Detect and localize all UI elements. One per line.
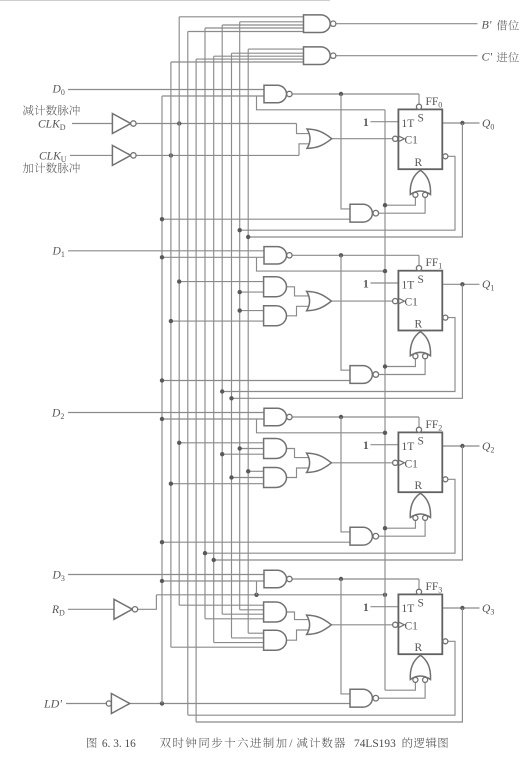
FF0 label S xyxy=(418,113,424,125)
NAND gate load-S cell0 xyxy=(264,85,292,102)
svg-text:C1: C1 xyxy=(405,458,419,470)
NAND gate G_C (carry) xyxy=(304,47,336,65)
svg-text:LD': LD' xyxy=(43,696,62,710)
wire up-AND input 2 cell2 xyxy=(240,448,264,450)
wire C' output xyxy=(336,55,478,57)
FF2 label R xyxy=(415,480,423,492)
svg-text:R: R xyxy=(415,480,423,492)
label constant 1 cell3 xyxy=(363,602,369,614)
wire bus LD vertical xyxy=(161,96,163,704)
node reset branch cell2 xyxy=(383,526,387,530)
label constant 1 cell0 xyxy=(363,117,369,129)
svg-text:1: 1 xyxy=(363,440,369,452)
OR gate clock cell0 xyxy=(307,129,332,148)
wire LD branch cell2 NAND input2 xyxy=(162,418,264,420)
wire C1 line cell0 xyxy=(332,138,393,140)
wire down-AND out step cell3 xyxy=(286,630,311,640)
wire NAND2 out cell0 xyxy=(379,198,425,214)
wire 1T constant cell0 xyxy=(371,121,399,123)
wire C1 line cell3 xyxy=(332,624,393,626)
wire LD to NAND2 cell0 xyxy=(162,218,350,220)
wire NAND1 output cell2 xyxy=(292,416,419,418)
wire NAND1 output cell3 xyxy=(292,578,419,580)
FF3 label 1T xyxy=(402,603,415,615)
label constant 1 cell2 xyxy=(363,440,369,452)
inverter LD' xyxy=(106,694,129,714)
FF3 S bubble xyxy=(416,589,421,594)
svg-text:1T: 1T xyxy=(402,279,415,291)
wire NAND1-to-NAND2 cell3 xyxy=(341,579,350,694)
wire CLK_D out xyxy=(136,123,296,125)
FF2 label 1T xyxy=(402,441,415,453)
wire reset branch cell0 xyxy=(385,198,415,206)
wire up-AND out step cell3 xyxy=(286,612,311,620)
caption xyxy=(87,737,448,750)
NAND gate load-R cell3 xyxy=(350,689,379,707)
wire load stub cell0 xyxy=(257,96,386,110)
FF0 label 1T xyxy=(402,118,415,130)
FF1 S bubble xyxy=(416,266,421,271)
FF0 Q' bubble xyxy=(443,154,448,159)
FF2 S bubble xyxy=(416,427,421,432)
node CLK_U bus xyxy=(169,153,173,157)
svg-text:74LS193: 74LS193 xyxy=(354,738,396,750)
wire D3 xyxy=(68,574,264,576)
output B' 借位 label xyxy=(482,17,519,31)
flip-flop FF3 box xyxy=(398,594,442,654)
FF3 C1 dynamic indicator xyxy=(393,622,405,628)
svg-text:1: 1 xyxy=(363,117,369,129)
FF2 C1 dynamic indicator xyxy=(393,460,405,466)
svg-text:1: 1 xyxy=(363,602,369,614)
OR gate reset cell1 xyxy=(410,332,430,359)
wire up-AND input 1 cell2 xyxy=(179,442,263,444)
NAND gate G_B (borrow) xyxy=(304,15,336,33)
wire down-AND input 3 cell3 xyxy=(214,642,264,644)
wire bus Q3' vertical xyxy=(187,32,189,716)
svg-text:1T: 1T xyxy=(402,603,415,615)
wire NAND1-to-NAND2 cell1 xyxy=(341,255,350,370)
wire LD to NAND2 cell2 xyxy=(162,541,350,543)
input CLK_D label xyxy=(38,119,66,133)
wire Q2 wrap xyxy=(214,446,463,560)
wire up-AND input 1 cell1 xyxy=(179,281,263,283)
NAND gate load-S cell2 xyxy=(264,408,292,425)
svg-text:C1: C1 xyxy=(405,297,419,309)
node Q0' bus join xyxy=(238,228,242,232)
node Q1 bus join xyxy=(229,396,233,400)
svg-text:R: R xyxy=(415,157,423,169)
wire down-AND input 2 cell1 xyxy=(171,320,264,322)
wire bus Q3 vertical xyxy=(195,59,197,722)
wire LD branch cell3 NAND input2 xyxy=(162,580,264,582)
FF0 label R xyxy=(415,157,423,169)
wire NAND1-to-NAND2 cell0 xyxy=(341,94,350,209)
AND gate count-up cell1 xyxy=(264,306,287,326)
wire up-AND out step cell1 xyxy=(286,287,311,296)
node Q3 xyxy=(460,606,464,610)
wire reset branch cell3 xyxy=(385,683,415,691)
wire load stub cell3 xyxy=(256,581,258,595)
wire up-AND out step cell2 xyxy=(286,449,311,458)
wire R_D reset line xyxy=(156,594,385,596)
wire down-AND input 4 cell3 xyxy=(171,646,264,648)
wire up-AND input 2 cell1 xyxy=(240,291,264,293)
flip-flop FF2 box xyxy=(398,432,442,492)
wire 1T constant cell2 xyxy=(371,444,399,446)
FF3 label S xyxy=(418,598,424,610)
wire S drop cell2 xyxy=(418,417,420,427)
FF2 label C1 xyxy=(405,458,419,470)
wire down-AND input 1 cell3 xyxy=(248,632,263,634)
FF2 name label xyxy=(426,419,443,433)
FF0 C1 dynamic indicator xyxy=(393,136,405,142)
wire LD' in xyxy=(66,703,106,705)
wire bus CLKU vertical xyxy=(170,62,172,647)
wire S drop cell1 xyxy=(418,255,420,265)
wire down-AND input 1 cell1 xyxy=(240,310,264,312)
FF1 label 1T xyxy=(402,279,415,291)
wire CLK_D step xyxy=(297,124,312,134)
wire borrow NAND input 1 xyxy=(179,16,303,18)
FF1 Q' bubble xyxy=(443,315,448,320)
svg-text:S: S xyxy=(418,598,424,610)
wire Q0' wrap xyxy=(240,156,455,230)
wire down-AND input 2 cell2 xyxy=(232,477,264,479)
wire down-AND input 3 cell2 xyxy=(171,483,264,485)
svg-text:R: R xyxy=(415,642,423,654)
svg-text:C': C' xyxy=(482,49,493,63)
node up-AND input 1 cell2 xyxy=(177,441,181,445)
FF1 C1 dynamic indicator xyxy=(393,298,405,304)
wire borrow NAND input 5 xyxy=(188,31,304,33)
FF0 S bubble xyxy=(416,104,421,109)
wire borrow NAND input 2 xyxy=(240,21,304,23)
wire up-AND input 3 cell2 xyxy=(222,453,263,455)
wire carry NAND input 4 xyxy=(196,58,303,60)
OR gate clock cell3 xyxy=(307,615,332,634)
node LD branch cell2 xyxy=(160,417,164,421)
wire LD top corner into NAND1 cell0 input2 xyxy=(162,95,264,97)
wire NAND1-to-NAND2 cell2 xyxy=(341,417,350,532)
NAND gate load-R cell2 xyxy=(350,527,379,545)
wire CLK_U out xyxy=(136,154,299,156)
svg-text:S: S xyxy=(418,274,424,286)
OR gate reset cell3 xyxy=(410,655,430,682)
wire Q1 wrap xyxy=(232,284,463,398)
wire bus CLKD vertical xyxy=(178,17,180,605)
wire LD' out xyxy=(130,703,350,705)
inverter CLK_D xyxy=(112,114,136,134)
wire Q2 out xyxy=(442,445,479,447)
svg-text:S: S xyxy=(418,436,424,448)
output Q1 label xyxy=(482,279,494,293)
node LD NAND2 branch cell2 xyxy=(160,540,164,544)
OR gate clock cell2 xyxy=(307,453,332,472)
wire carry NAND input 5 xyxy=(171,61,304,63)
FF1 label R xyxy=(415,318,423,330)
node NAND1 out cell1 xyxy=(339,253,343,257)
FF1 name label xyxy=(426,257,443,271)
node reset branch cell0 xyxy=(383,203,387,207)
wire bus Q1 vertical xyxy=(231,53,233,638)
flip-flop FF0 box xyxy=(398,109,442,169)
inverter CLK_U xyxy=(112,145,136,165)
wire load stub cell1 xyxy=(257,257,386,271)
wire Q3' wrap xyxy=(188,641,455,715)
node Q2 bus join xyxy=(212,558,216,562)
wire reset rail vertical xyxy=(384,110,386,690)
svg-text:6. 3. 16: 6. 3. 16 xyxy=(102,738,136,750)
FF3 Q' bubble xyxy=(443,639,448,644)
node up-AND input 1 cell1 xyxy=(177,279,181,283)
wire Q3 out xyxy=(442,607,479,609)
wire up-AND input 2 cell3 xyxy=(240,609,264,611)
node Q0 bus join xyxy=(246,235,250,239)
wire LD to NAND2 cell1 xyxy=(162,380,350,382)
wire Q0 wrap xyxy=(248,123,462,237)
svg-text:B': B' xyxy=(482,17,492,31)
wire load stub cell2 xyxy=(257,419,386,433)
wire NAND2 out cell1 xyxy=(379,359,425,375)
label 减计数脉冲 xyxy=(23,105,80,116)
OR gate reset cell2 xyxy=(410,493,430,520)
wire Q1' wrap xyxy=(222,318,455,392)
input D0 label xyxy=(52,83,65,97)
node down-AND input 2 cell2 xyxy=(229,475,233,479)
input D1 label xyxy=(52,245,65,258)
node LD' bus xyxy=(160,701,164,705)
node LD NAND2 branch cell1 xyxy=(160,378,164,382)
wire up-AND input 4 cell3 xyxy=(205,618,264,620)
node LD branch cell1 xyxy=(160,255,164,259)
wire R stub cell3 xyxy=(419,654,421,655)
wire NAND2 out cell2 xyxy=(379,521,425,537)
flip-flop FF1 box xyxy=(398,271,442,331)
wire R stub cell1 xyxy=(419,331,421,332)
svg-text:1T: 1T xyxy=(402,441,415,453)
wire carry NAND input 3 xyxy=(214,55,304,57)
node up-AND input 3 cell2 xyxy=(220,452,224,456)
wire 1T constant cell3 xyxy=(371,606,399,608)
node up-AND input 2 cell2 xyxy=(238,446,242,450)
svg-text:1: 1 xyxy=(363,278,369,290)
svg-text:1T: 1T xyxy=(402,118,415,130)
wire CLK_U step xyxy=(299,144,311,156)
FF3 label R xyxy=(415,642,423,654)
wire NAND2 out cell3 xyxy=(379,683,425,699)
NAND gate load-R cell1 xyxy=(350,366,379,384)
wire R stub cell0 xyxy=(419,169,421,170)
input LD' label xyxy=(43,696,62,710)
label constant 1 cell1 xyxy=(363,278,369,290)
node down-AND input 2 cell1 xyxy=(169,319,173,323)
inverter R_D xyxy=(114,599,138,619)
AND gate count-up cell3 xyxy=(264,630,287,650)
FF2 Q' bubble xyxy=(443,477,448,482)
node reset rail join cell1 xyxy=(383,269,387,273)
node LD NAND2 branch cell0 xyxy=(160,217,164,221)
wire R stub cell2 xyxy=(419,492,421,493)
node NAND1 out cell2 xyxy=(339,415,343,419)
wire Q3 wrap xyxy=(196,608,462,722)
node NAND1 out cell0 xyxy=(339,92,343,96)
svg-text:R: R xyxy=(415,318,423,330)
input CLK_U label xyxy=(39,150,67,164)
node Q2 xyxy=(460,444,464,448)
FF0 label C1 xyxy=(405,134,419,146)
svg-text:C1: C1 xyxy=(405,620,419,632)
wire NAND1 output cell1 xyxy=(292,254,419,256)
svg-text:S: S xyxy=(418,113,424,125)
label 加计数脉冲 xyxy=(23,163,80,174)
wire NAND1 output cell0 xyxy=(292,93,419,95)
output Q0 label xyxy=(482,118,494,132)
wire CLK_D in xyxy=(72,123,112,125)
node CLK_D bus xyxy=(177,121,181,125)
wire bus Q2 vertical xyxy=(213,56,215,642)
wire Q1 out xyxy=(442,283,479,285)
wire down-AND input 1 cell2 xyxy=(248,470,263,472)
FF1 label S xyxy=(418,274,424,286)
wire up-AND input 1 cell3 xyxy=(179,604,263,606)
wire borrow NAND input 4 xyxy=(205,27,304,29)
wire S drop cell3 xyxy=(418,579,420,589)
AND gate count-up cell2 xyxy=(264,468,287,488)
wire bus Q0' vertical xyxy=(239,22,241,610)
FF1 label C1 xyxy=(405,297,419,309)
node Q2' bus join xyxy=(203,551,207,555)
input D3 label xyxy=(52,569,65,583)
NAND gate load-S cell3 xyxy=(264,570,292,587)
node reset branch cell1 xyxy=(383,364,387,368)
output C' 进位 label xyxy=(482,49,519,63)
wire C1 line cell2 xyxy=(332,462,393,464)
node Q0 xyxy=(460,121,464,125)
wire borrow NAND input 3 xyxy=(222,24,303,26)
wire Q0 out xyxy=(442,122,479,124)
AND gate count-down cell3 xyxy=(264,602,287,622)
wire down-AND out step cell1 xyxy=(286,306,311,316)
wire D0 xyxy=(68,89,264,91)
wire carry NAND input 1 xyxy=(248,48,303,50)
wire S drop cell0 xyxy=(418,94,420,104)
wire bus Q0 vertical xyxy=(247,49,249,633)
wire C1 line cell1 xyxy=(332,300,393,302)
wire bus Q1' vertical xyxy=(221,25,223,614)
input R_D label xyxy=(51,604,65,618)
OR gate clock cell1 xyxy=(307,291,332,310)
wire R_D route xyxy=(138,595,157,610)
scan artifact top edge xyxy=(0,0,330,1)
OR gate reset cell0 xyxy=(410,170,430,197)
FF2 label S xyxy=(418,436,424,448)
node Q1 xyxy=(460,282,464,286)
node NAND1 out cell3 xyxy=(339,577,343,581)
node LD branch cell3 xyxy=(160,579,164,583)
node R_D to reset rail xyxy=(383,593,387,597)
FF3 name label xyxy=(426,581,443,595)
AND gate count-down cell2 xyxy=(264,439,287,459)
NAND gate load-S cell1 xyxy=(264,247,292,264)
svg-text:C1: C1 xyxy=(405,134,419,146)
input D2 label xyxy=(51,407,64,421)
node down-AND input 3 cell2 xyxy=(169,482,173,486)
wire down-AND input 2 cell3 xyxy=(232,637,264,639)
output Q2 label xyxy=(482,441,494,455)
node Q1' bus join xyxy=(220,389,224,393)
wire down-AND out step cell2 xyxy=(286,468,311,478)
wire D1 xyxy=(68,250,264,252)
wire reset branch cell1 xyxy=(385,359,415,367)
wire carry NAND input 2 xyxy=(232,52,304,54)
AND gate count-down cell1 xyxy=(264,277,287,297)
FF3 label C1 xyxy=(405,620,419,632)
node R_D stub junction xyxy=(254,593,258,597)
wire bus Q2' vertical xyxy=(204,28,206,619)
wire LD branch cell1 NAND input2 xyxy=(162,256,264,258)
node down-AND input 1 cell1 xyxy=(238,308,242,312)
node down-AND input 1 cell2 xyxy=(246,469,250,473)
NAND gate load-R cell0 xyxy=(350,204,379,222)
wire up-AND input 3 cell3 xyxy=(222,613,263,615)
wire Q2' wrap xyxy=(205,479,455,553)
wire B' output xyxy=(336,23,478,25)
output Q3 label xyxy=(482,603,494,617)
wire 1T constant cell1 xyxy=(371,282,399,284)
wire D2 xyxy=(68,412,264,414)
node reset rail join cell2 xyxy=(383,431,387,435)
wire CLK_U in xyxy=(70,154,112,156)
node up-AND input 2 cell1 xyxy=(238,290,242,294)
wire R_D in xyxy=(68,608,114,610)
FF0 name label xyxy=(426,96,443,110)
wire reset branch cell2 xyxy=(385,521,415,529)
